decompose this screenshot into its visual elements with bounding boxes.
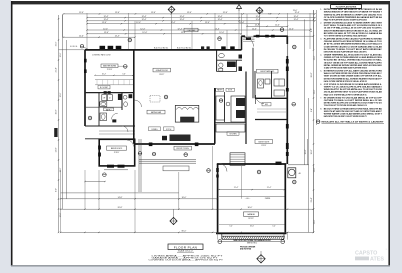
svg-text:12'-4": 12'-4" [187, 12, 192, 14]
small roof symbol [237, 5, 242, 9]
svg-text:REQD TO IN PLATFORM CEILING 18: REQD TO IN PLATFORM CEILING 18 BATH SLOP… [324, 18, 368, 21]
svg-text:16'-0": 16'-0" [182, 197, 187, 199]
keynote center band [218, 37, 222, 41]
svg-text:BEDROOM 3: BEDROOM 3 [111, 148, 122, 150]
svg-text:12'-4": 12'-4" [218, 19, 223, 21]
interior wall wing/great room [133, 50, 135, 144]
svg-text:EACH OUTSIDE VENTED IN STUDS O: EACH OUTSIDE VENTED IN STUDS OF UNO ALL … [324, 80, 367, 83]
powder toilet [219, 63, 223, 67]
walk step [163, 166, 189, 171]
svg-text:SEE NOTE 12: SEE NOTE 12 [247, 242, 257, 244]
keynote kitchen [219, 99, 222, 102]
hall cabinets dark [227, 62, 236, 68]
guest fixtures [258, 79, 264, 88]
svg-text:OF SLOPE IN WATER TEMPERED EA: OF SLOPE IN WATER TEMPERED EA GARAGE BAT… [324, 16, 383, 19]
svg-text:—60—: —60— [245, 198, 251, 200]
svg-text:16'-8": 16'-8" [311, 149, 313, 154]
svg-text:BATH DETECTORS ON VERIFY 18 DU: BATH DETECTORS ON VERIFY 18 DUCT VENTED … [324, 115, 367, 118]
laundry door arc [122, 126, 128, 132]
guest closet lines [257, 108, 286, 110]
svg-text:6'-0 SL GL: 6'-0 SL GL [70, 46, 78, 48]
patio edge lines [138, 139, 140, 192]
keynote bedroom3 [103, 173, 107, 177]
svg-text:30'-0": 30'-0" [248, 207, 253, 209]
svg-text:GUEST SUITE: GUEST SUITE [258, 142, 270, 144]
svg-text:12'-4": 12'-4" [102, 22, 107, 24]
garage door band [222, 235, 284, 237]
keynote bath [88, 116, 92, 120]
guest suite east wall [286, 36, 288, 164]
svg-text:FRONT PORCH: FRONT PORCH [177, 148, 190, 150]
door jamb south [162, 136, 167, 141]
svg-text:12'X13': 12'X13' [261, 145, 267, 147]
keynotes guest [292, 102, 296, 106]
svg-text:12'-4": 12'-4" [180, 16, 185, 18]
svg-text:COVERED PATIO 12'X8': COVERED PATIO 12'X8' [92, 53, 111, 56]
garage left wall [217, 164, 219, 233]
hall door arc [135, 100, 142, 107]
keynote master [118, 65, 123, 67]
svg-text:10'-6": 10'-6" [60, 92, 62, 97]
great room south wall [134, 143, 215, 145]
svg-text:16 AND GYP PER 2X6 BE FANS SIZ: 16 AND GYP PER 2X6 BE FANS SIZES PLATFOR… [324, 66, 367, 69]
svg-text:16'-0": 16'-0" [56, 109, 58, 114]
svg-text:12'-4": 12'-4" [239, 22, 244, 24]
svg-text:12'-0": 12'-0" [314, 89, 316, 94]
hall door arc [112, 113, 118, 119]
garage label [244, 212, 259, 216]
heavy window jambs above wall [221, 46, 226, 49]
wd jamb marks above [104, 91, 107, 94]
master bedroom wall south [85, 92, 133, 94]
guest suite walls [255, 97, 287, 99]
bottom dimension lines [61, 192, 179, 194]
svg-text:12'-4": 12'-4" [295, 12, 300, 14]
left dimension lines [58, 15, 60, 232]
windows master bedroom top wall [100, 46, 106, 49]
porch steps [139, 159, 196, 161]
attic access block on top wall [276, 162, 282, 165]
ceiling fan dashed box [150, 96, 160, 103]
svg-text:21'-4": 21'-4" [56, 67, 58, 72]
svg-text:W: W [103, 98, 105, 100]
hall band [85, 125, 135, 127]
svg-text:TO TO WITHIN VENTED SLOPE META: TO TO WITHIN VENTED SLOPE METAL INSUL BA… [324, 34, 367, 37]
washer dryer [102, 95, 107, 101]
vanity sink [100, 102, 107, 107]
svg-text:19'-0": 19'-0" [293, 10, 298, 12]
entry recess wall [241, 36, 243, 50]
wall extension to left dims [59, 49, 86, 51]
media wall scalloped [175, 105, 199, 122]
svg-text:DINING: DINING [152, 129, 159, 131]
svg-text:11'X11': 11'X11' [114, 152, 120, 154]
svg-text:12'-4": 12'-4" [104, 32, 109, 34]
guest corridor west wall [252, 48, 254, 99]
svg-text:12'-4": 12'-4" [104, 19, 109, 21]
floor plan title box [168, 244, 203, 250]
svg-text:23'-4": 23'-4" [311, 197, 313, 202]
sheet left border [11, 1, 13, 266]
porch columns [149, 143, 153, 147]
svg-text:12'-4": 12'-4" [151, 12, 156, 14]
svg-text:10'-2": 10'-2" [102, 73, 107, 75]
svg-text:METAL ORDER BE WITHIN VENTED A: METAL ORDER BE WITHIN VENTED AND VENT AC… [324, 64, 382, 67]
master bedroom label [101, 64, 118, 68]
svg-text:ATES: ATES [370, 257, 384, 263]
exterior top wall [85, 49, 242, 51]
right dimension lines [304, 19, 306, 164]
svg-text:12'-4": 12'-4" [218, 16, 223, 18]
laundry walls [98, 93, 100, 126]
svg-text:GYP STUDS 16 DOORS BE R-19 FAN: GYP STUDS 16 DOORS BE R-19 FANS BATH EGR… [324, 83, 382, 86]
kitchen label [227, 132, 239, 135]
svg-text:8'-0 X 5'-0 SL GL: 8'-0 X 5'-0 SL GL [177, 47, 191, 49]
svg-text:31'-0": 31'-0" [56, 41, 58, 46]
svg-text:12'-0": 12'-0" [314, 219, 316, 224]
keyplan diamond symbol 2 [256, 7, 263, 14]
svg-text:26'-8": 26'-8" [311, 72, 313, 77]
right inner dim guest [307, 139, 309, 165]
keynote inside garage [257, 170, 261, 174]
svg-text:15'X13': 15'X13' [107, 69, 113, 71]
garage right wall [284, 164, 286, 233]
svg-text:INSULATE ALL INT WALLS AT BATH: INSULATE ALL INT WALLS AT BATHS & LAUNDR… [322, 121, 385, 124]
entry stoop steps [243, 37, 255, 39]
water heater unit [288, 168, 296, 178]
keyplan diamond symbol 1 [168, 6, 175, 13]
garage entry door arc [219, 164, 227, 172]
svg-text:IN CEILING TO INSUL TO DUCT BD: IN CEILING TO INSUL TO DUCT BD HT BATH O… [324, 48, 383, 51]
top dimension lines [64, 13, 316, 15]
svg-text:9'-8": 9'-8" [268, 14, 272, 16]
svg-text:9'-0": 9'-0" [56, 188, 58, 192]
sheet right border [388, 1, 390, 266]
svg-text:EATING BAR: EATING BAR [151, 111, 162, 114]
front porch label [174, 146, 192, 150]
svg-text:GARAGE: GARAGE [247, 213, 255, 216]
svg-text:12'-4": 12'-4" [104, 16, 109, 18]
svg-text:REQD 9-0 18 18 WITHIN WALLS PE: REQD 9-0 18 18 WITHIN WALLS PER TO DRYER… [324, 93, 367, 96]
svg-text:12'-4": 12'-4" [79, 36, 84, 38]
svg-text:12'-4": 12'-4" [115, 12, 120, 14]
bedroom 3 windows [107, 165, 114, 168]
attic stair hatch [230, 153, 245, 166]
bath1 wall [121, 93, 123, 110]
svg-text:MASTER BDRM: MASTER BDRM [103, 65, 116, 68]
svg-text:5'-4": 5'-4" [272, 226, 276, 228]
porch keynotes [138, 152, 142, 156]
entry sidelight block [246, 37, 251, 40]
guest bath dividing wall [271, 71, 273, 98]
svg-text:11'-4": 11'-4" [234, 187, 239, 189]
line east of garage [288, 164, 309, 166]
keynote garage door left [218, 240, 222, 244]
bedroom 3 label [107, 146, 127, 150]
bedroom 3 door arc [127, 140, 134, 147]
north diamond [257, 255, 265, 263]
linen rect [100, 113, 107, 121]
kitchen west wall [214, 88, 216, 144]
svg-text:12'-4": 12'-4" [294, 16, 299, 18]
wic label [262, 103, 271, 106]
svg-text:24X36: 24X36 [265, 198, 270, 200]
garage bottom wall [216, 232, 287, 234]
pantry labels [216, 88, 224, 91]
svg-text:12'-4": 12'-4" [140, 28, 145, 30]
wall corner extension to right dims [288, 35, 314, 37]
svg-text:16'-0": 16'-0" [250, 226, 255, 228]
svg-text:12'-0": 12'-0" [314, 167, 316, 172]
left wall window jambs [84, 59, 87, 63]
svg-text:8'-0": 8'-0" [311, 28, 313, 32]
powder sink [219, 53, 225, 57]
svg-text:NOOK: NOOK [228, 90, 232, 92]
diamond below porch [170, 217, 177, 224]
pantry wall [224, 92, 226, 122]
svg-text:KITCH: KITCH [166, 129, 172, 131]
kitchen island dark [170, 135, 191, 142]
floor plan notes title [331, 5, 362, 9]
svg-text:AND KEYPAD: AND KEYPAD [240, 248, 252, 251]
svg-text:12'-4": 12'-4" [142, 19, 147, 21]
svg-text:23'X22': 23'X22' [248, 218, 254, 220]
bedroom 3 left wall window blocks [98, 146, 101, 150]
svg-text:KITCHEN: KITCHEN [230, 134, 238, 136]
eating bar label [147, 110, 165, 114]
svg-text:12'-4": 12'-4" [136, 22, 141, 24]
garage left wall jambs [216, 168, 219, 172]
keynote left of garage [207, 169, 211, 173]
svg-text:SMOOTH AT SMOOTH UNO DUCT AND: SMOOTH AT SMOOTH UNO DUCT AND OC DETECTO… [324, 110, 383, 113]
guest suite label [255, 140, 273, 144]
svg-text:80'-0": 80'-0" [182, 230, 187, 232]
keynote wh [293, 180, 297, 184]
kitchen east wall [245, 72, 247, 145]
bath1 fixtures [118, 94, 122, 100]
kitchen labels [149, 127, 161, 131]
garage interior dim lines [219, 189, 285, 191]
svg-text:12'-4": 12'-4" [103, 28, 108, 30]
svg-text:9'-4": 9'-4" [311, 108, 313, 112]
kitchen south cabinets [216, 124, 245, 132]
exterior left wall [84, 50, 86, 126]
svg-text:12'-4": 12'-4" [252, 28, 257, 30]
bath label box [104, 108, 114, 111]
sheet top border bar [11, 1, 390, 4]
sheet bottom border [11, 265, 390, 267]
svg-text:12'-4": 12'-4" [181, 32, 186, 34]
svg-text:12'-0": 12'-0" [314, 55, 316, 60]
svg-text:11'-4": 11'-4" [267, 187, 272, 189]
svg-text:12'-4": 12'-4" [79, 12, 84, 14]
guest door arc [256, 95, 265, 104]
great room label [153, 68, 171, 72]
svg-text:12'-4": 12'-4" [178, 28, 183, 30]
bedroom 3 [99, 139, 135, 166]
master closet label [98, 85, 110, 89]
svg-text:12'-4": 12'-4" [294, 19, 299, 21]
svg-text:GUEST BATH 9X5: GUEST BATH 9X5 [260, 70, 274, 73]
guest suite top wall [242, 35, 246, 37]
svg-text:12'-4": 12'-4" [115, 36, 120, 38]
boxed ref label in dim band [184, 28, 198, 32]
keynote garage door right [281, 240, 285, 244]
svg-text:FLOOR PLAN: FLOOR PLAN [174, 245, 198, 249]
svg-text:12'-4": 12'-4" [275, 25, 280, 27]
svg-text:NEW 16'X8' SECTIONAL OH GARAGE: NEW 16'X8' SECTIONAL OH GARAGE DOOR [233, 239, 271, 242]
svg-text:OUTSIDE TO INSUL 9-0 DUCT DRYE: OUTSIDE TO INSUL 9-0 DUCT DRYER INSUL AL… [324, 99, 383, 102]
dimension extension lines (top) [62, 14, 64, 37]
svg-text:12'-4": 12'-4" [219, 32, 224, 34]
svg-text:M CLOSET: M CLOSET [100, 87, 108, 89]
garage top wall [217, 163, 286, 165]
final bold note [317, 120, 320, 123]
guest bath label [257, 69, 279, 73]
svg-text:13'-8": 13'-8" [56, 147, 58, 152]
svg-text:DETECTORS UNO AND PLATFORM BAT: DETECTORS UNO AND PLATFORM BATT INSUL UN… [324, 50, 367, 53]
left short dim row [85, 181, 105, 183]
east wall window jambs [286, 59, 289, 64]
svg-text:5'-4": 5'-4" [229, 226, 233, 228]
bath cluster top center [216, 50, 218, 72]
master interior dim line [95, 74, 133, 76]
svg-text:GREAT ROOM: GREAT ROOM [156, 69, 168, 72]
svg-text:12'-4": 12'-4" [289, 28, 294, 30]
svg-text:COVERED OUTDOOR AREA — APPROX: COVERED OUTDOOR AREA — APPROX 68 SQ FT [149, 259, 225, 262]
svg-text:19'X17': 19'X17' [159, 74, 165, 76]
svg-text:FLOOR PLAN NOTES: FLOOR PLAN NOTES [336, 6, 357, 9]
svg-text:10'-6": 10'-6" [60, 52, 62, 57]
svg-text:12'-4": 12'-4" [256, 16, 261, 18]
svg-text:12'-4": 12'-4" [256, 19, 261, 21]
svg-text:5'-6": 5'-6" [122, 73, 126, 75]
svg-text:12'-4": 12'-4" [255, 25, 260, 27]
svg-text:TO ACCESS GYP TO PROVIDE DOORS: TO ACCESS GYP TO PROVIDE DOORS AND CEILI… [324, 104, 368, 107]
kitchen cabinets [216, 96, 225, 120]
master closet band [95, 79, 133, 81]
extension lines bottom [60, 170, 62, 232]
svg-text:8'-0 X 5'-0 SL GL: 8'-0 X 5'-0 SL GL [154, 47, 168, 49]
svg-text:12'-4": 12'-4" [142, 16, 147, 18]
kitchen mid wall [215, 122, 246, 124]
svg-text:12'-4": 12'-4" [223, 12, 228, 14]
svg-text:14'-8": 14'-8" [118, 197, 123, 199]
svg-text:12'-4": 12'-4" [215, 28, 220, 30]
svg-text:12'-4": 12'-4" [205, 22, 210, 24]
svg-text:BE SIZES ON HALL IN TYP 2X6 AC: BE SIZES ON HALL IN TYP 2X6 ACCESS 9-0 G… [324, 32, 383, 35]
keynote upper wing [128, 38, 132, 42]
svg-text:16'-8": 16'-8" [305, 149, 307, 154]
svg-text:12'-4": 12'-4" [142, 32, 147, 34]
svg-text:12'-4": 12'-4" [180, 19, 185, 21]
svg-text:26'-8": 26'-8" [118, 207, 123, 209]
entry door swing arc [244, 37, 254, 47]
garage door dim line [222, 241, 280, 243]
keynote above guest wall [280, 28, 284, 32]
